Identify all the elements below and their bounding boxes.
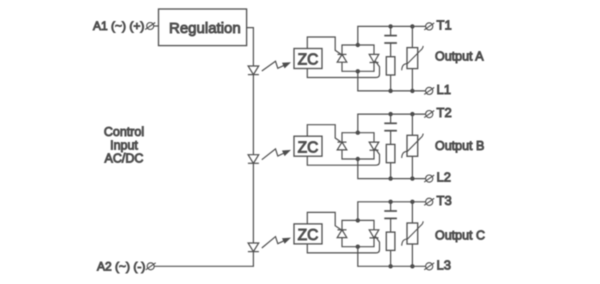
terminal A1 bbox=[147, 23, 154, 30]
wire: LED D1 to LED D2 bbox=[252, 75, 254, 155]
terminal T2 bbox=[426, 111, 433, 118]
optocoupler LED D3 bbox=[248, 243, 259, 252]
thyristor block box C bbox=[342, 220, 374, 246]
wire: thyristor block to L3 rail bbox=[358, 247, 426, 267]
svg-text:T1: T1 bbox=[437, 17, 452, 32]
snubber capacitor C3 bbox=[390, 202, 392, 211]
svg-text:T3: T3 bbox=[437, 193, 452, 208]
gate wire: ZC C to left thyristor bbox=[307, 212, 343, 231]
terminal L3 bbox=[426, 263, 433, 270]
wire: T3 rail and tap to thyristor block bbox=[358, 202, 426, 221]
thyristor C right (conducts down) bbox=[369, 230, 379, 238]
wire: T1 rail and tap to thyristor block bbox=[358, 26, 426, 45]
junction: snubber top on T3 rail bbox=[388, 200, 392, 204]
svg-text:Input: Input bbox=[110, 139, 138, 153]
snubber resistor R1 bbox=[386, 57, 395, 75]
svg-text:L1: L1 bbox=[437, 82, 451, 97]
thyristor A left (conducts up) bbox=[337, 54, 347, 62]
terminal L2 bbox=[426, 175, 433, 182]
ZC zero-cross trigger block C bbox=[294, 224, 322, 244]
gate wire: ZC B to left thyristor bbox=[307, 125, 343, 144]
junction: tap on thyristor block top B bbox=[356, 131, 360, 135]
wire: T2 rail and tap to thyristor block bbox=[358, 114, 426, 133]
thyristor block box A bbox=[342, 45, 374, 71]
thyristor B left (conducts up) bbox=[337, 142, 347, 150]
svg-text:ZC: ZC bbox=[298, 227, 319, 244]
wire: LED D3 to A2 terminal bbox=[154, 252, 253, 267]
svg-text:A2 (~) (-): A2 (~) (-) bbox=[97, 260, 145, 274]
varistor RV1 bbox=[411, 26, 413, 47]
thyristor block box B bbox=[342, 133, 374, 159]
junction: varistor top on T1 rail bbox=[410, 24, 414, 28]
ZC zero-cross trigger block A bbox=[294, 49, 322, 69]
svg-text:Output B: Output B bbox=[435, 139, 484, 153]
gate wire: ZC C to right thyristor bbox=[307, 237, 379, 253]
junction: tap on thyristor block bottom A bbox=[356, 69, 360, 73]
junction: varistor top on T3 rail bbox=[410, 200, 414, 204]
terminal T3 bbox=[426, 198, 433, 205]
terminal L1 bbox=[426, 87, 433, 94]
snubber resistor R2 bbox=[386, 144, 395, 162]
optocoupler light arrow to ZC B bbox=[262, 149, 284, 160]
junction: snubber bottom on L3 rail bbox=[388, 264, 392, 268]
thyristor B right (conducts down) bbox=[369, 142, 379, 150]
optocoupler light arrow to ZC A bbox=[262, 61, 284, 71]
svg-text:Control: Control bbox=[104, 125, 144, 139]
varistor RV2 bbox=[411, 114, 413, 135]
wire: thyristor block to L1 rail bbox=[358, 71, 426, 91]
wire: A1 terminal to Regulation block bbox=[154, 25, 159, 27]
svg-text:L3: L3 bbox=[437, 257, 451, 272]
thyristor C left (conducts up) bbox=[337, 230, 347, 238]
regulation block U1 bbox=[159, 9, 247, 46]
svg-text:Output A: Output A bbox=[435, 50, 484, 64]
svg-text:ZC: ZC bbox=[298, 139, 319, 156]
svg-text:ZC: ZC bbox=[298, 52, 319, 69]
junction: tap on thyristor block bottom C bbox=[356, 245, 360, 249]
junction: snubber top on T1 rail bbox=[388, 24, 392, 28]
gate wire: ZC A to left thyristor bbox=[307, 37, 343, 56]
terminal T1 bbox=[426, 23, 433, 30]
junction: snubber bottom on L1 rail bbox=[388, 89, 392, 93]
junction: tap on thyristor block bottom B bbox=[356, 157, 360, 161]
gate wire: ZC B to right thyristor bbox=[307, 149, 379, 165]
junction: varistor bottom on L1 rail bbox=[410, 89, 414, 93]
svg-text:T2: T2 bbox=[437, 105, 452, 120]
thyristor A right (conducts down) bbox=[369, 54, 379, 62]
svg-text:L2: L2 bbox=[437, 170, 451, 185]
ZC zero-cross trigger block B bbox=[294, 136, 322, 156]
varistor RV3 bbox=[411, 202, 413, 223]
svg-text:AC/DC: AC/DC bbox=[105, 152, 144, 166]
snubber capacitor C2 bbox=[390, 114, 392, 123]
junction: tap on thyristor block top A bbox=[356, 43, 360, 47]
optocoupler LED D1 bbox=[248, 66, 259, 75]
junction: snubber top on T2 rail bbox=[388, 112, 392, 116]
svg-text:A1 (~) (+): A1 (~) (+) bbox=[93, 19, 144, 33]
terminal A2 bbox=[147, 263, 154, 270]
junction: tap on thyristor block top C bbox=[356, 218, 360, 222]
optocoupler light arrow to ZC C bbox=[262, 237, 284, 248]
svg-text:Regulation: Regulation bbox=[169, 20, 241, 37]
junction: varistor top on T2 rail bbox=[410, 112, 414, 116]
wire: thyristor block to L2 rail bbox=[358, 159, 426, 179]
junction: varistor bottom on L3 rail bbox=[410, 264, 414, 268]
wire: LED D2 to LED D3 bbox=[252, 163, 254, 243]
junction: varistor bottom on L2 rail bbox=[410, 176, 414, 180]
junction: snubber bottom on L2 rail bbox=[388, 176, 392, 180]
svg-text:Output C: Output C bbox=[435, 229, 485, 243]
optocoupler LED D2 bbox=[248, 155, 259, 164]
gate wire: ZC A to right thyristor bbox=[307, 61, 379, 77]
wire: Regulation output to LED D1 bbox=[247, 28, 254, 66]
snubber resistor R3 bbox=[386, 232, 395, 250]
snubber capacitor C1 bbox=[390, 26, 392, 35]
